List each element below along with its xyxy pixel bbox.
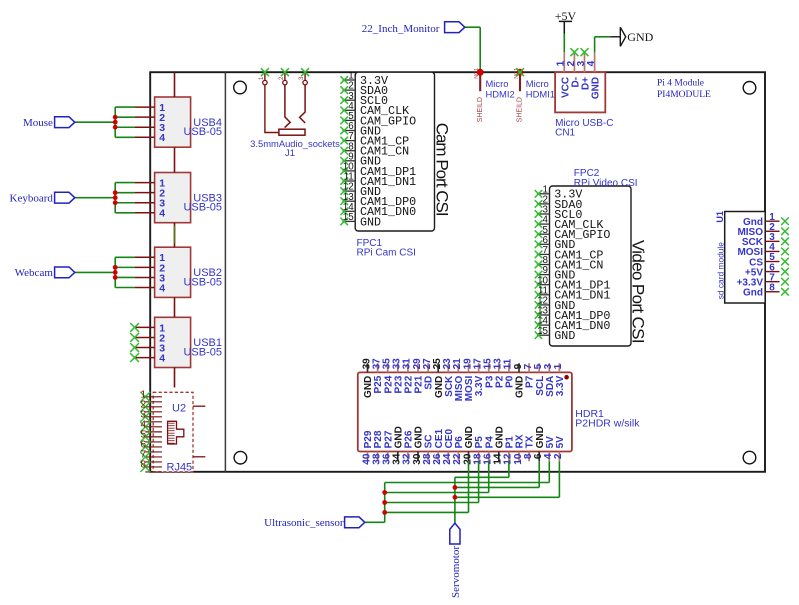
svg-text:1: 1 xyxy=(553,363,564,369)
svg-text:USB-05: USB-05 xyxy=(183,126,222,138)
svg-text:GND: GND xyxy=(360,215,381,229)
svg-text:4: 4 xyxy=(159,353,165,365)
svg-text:HDMI2: HDMI2 xyxy=(486,88,515,99)
svg-text:Video Port CSI: Video Port CSI xyxy=(629,240,648,343)
svg-text:RJ45: RJ45 xyxy=(167,462,193,474)
svg-text:P2HDR w/silk: P2HDR w/silk xyxy=(575,418,640,430)
svg-text:USB-05: USB-05 xyxy=(183,202,222,214)
svg-text:8: 8 xyxy=(140,459,146,470)
svg-text:Keyboard: Keyboard xyxy=(10,193,54,205)
svg-text:5V: 5V xyxy=(555,436,566,449)
svg-text:RPi Cam CSI: RPi Cam CSI xyxy=(357,248,416,259)
svg-text:U1: U1 xyxy=(715,211,725,223)
svg-text:Mouse: Mouse xyxy=(23,117,53,129)
svg-text:22_Inch_Monitor: 22_Inch_Monitor xyxy=(362,23,440,35)
svg-text:SHEILD: SHEILD xyxy=(517,97,524,122)
svg-text:3.5mmAudio_sockets: 3.5mmAudio_sockets xyxy=(250,138,340,149)
svg-text:Webcam: Webcam xyxy=(15,267,54,279)
svg-text:3.3V: 3.3V xyxy=(555,375,566,396)
svg-text:PI4MODULE: PI4MODULE xyxy=(657,90,711,100)
svg-text:4: 4 xyxy=(159,132,165,144)
svg-text:J1: J1 xyxy=(285,147,295,158)
svg-text:U2: U2 xyxy=(172,403,186,415)
svg-text:GND: GND xyxy=(627,30,653,44)
svg-text:15: 15 xyxy=(537,326,548,337)
svg-text:sd card module: sd card module xyxy=(715,242,725,300)
svg-text:4: 4 xyxy=(159,282,165,294)
svg-text:HDMI1: HDMI1 xyxy=(526,88,555,99)
svg-text:GND: GND xyxy=(591,77,602,99)
svg-text:RPi Video CSI: RPi Video CSI xyxy=(574,178,638,189)
svg-text:4: 4 xyxy=(586,60,597,66)
svg-text:SHEILD: SHEILD xyxy=(477,97,484,122)
svg-text:15: 15 xyxy=(343,212,354,223)
svg-text:Servomotor: Servomotor xyxy=(450,546,462,598)
svg-text:USB-05: USB-05 xyxy=(183,346,222,358)
svg-text:Cam Port CSI: Cam Port CSI xyxy=(432,123,451,216)
svg-text:CN1: CN1 xyxy=(555,127,575,138)
svg-text:2: 2 xyxy=(553,453,564,459)
svg-text:GND: GND xyxy=(554,329,575,343)
svg-text:USB-05: USB-05 xyxy=(183,276,222,288)
svg-text:Pi 4 Module: Pi 4 Module xyxy=(657,79,704,89)
svg-text:Gnd: Gnd xyxy=(743,288,763,299)
svg-text:8: 8 xyxy=(769,282,775,293)
svg-text:4: 4 xyxy=(159,208,165,220)
svg-text:Ultrasonic_sensor: Ultrasonic_sensor xyxy=(264,517,344,529)
